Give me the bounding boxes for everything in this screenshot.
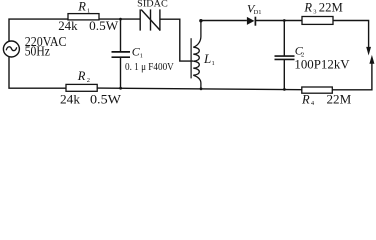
svg-text:1: 1 (87, 8, 90, 15)
output terminal arrow down (top) (366, 47, 371, 56)
svg-text:50Hz: 50Hz (25, 44, 50, 59)
resistor R1 box (68, 14, 99, 20)
wire SIDAC out, down, tap to L1 (160, 19, 193, 61)
wire C2 bottom stem (283, 60, 285, 90)
diode VD1 (247, 17, 256, 26)
wire C2 top stem (283, 21, 285, 56)
svg-text:100P12kV: 100P12kV (294, 56, 350, 71)
wire C1 bottom stem (120, 58, 122, 88)
svg-text:4: 4 (311, 100, 315, 106)
label C2 (295, 44, 304, 59)
svg-text:22M: 22M (319, 0, 343, 15)
wire R3 to top output terminal (333, 21, 369, 52)
AC source G1 circle (3, 41, 19, 57)
svg-text:0.5W: 0.5W (89, 18, 119, 33)
label R4 (301, 93, 315, 108)
junction node dots (119, 18, 286, 91)
label VD1 (247, 1, 262, 16)
resistor R4 box (302, 87, 333, 93)
svg-text:R: R (77, 0, 86, 14)
svg-text:24k: 24k (58, 18, 78, 33)
AC source sine symbol (6, 47, 17, 51)
wire AC source bottom stub and bottom rail to R2 (9, 57, 66, 88)
capacitor C2 plates (275, 56, 295, 59)
wire bottom rail R2 to R4 (97, 88, 302, 90)
wire R1 to SIDAC (99, 18, 140, 20)
svg-text:D1: D1 (254, 9, 262, 16)
svg-text:R: R (303, 1, 312, 15)
inductor L1 core line (190, 38, 192, 78)
svg-text:R: R (77, 69, 86, 83)
inductor L1 winding (193, 21, 201, 89)
wire C1 top stem (120, 19, 122, 51)
wire top-left corner to R1 (9, 19, 68, 41)
label R2 (77, 69, 90, 84)
output terminal arrow up (bottom) (369, 55, 374, 64)
label R1 (77, 0, 90, 15)
capacitor C1 plates (112, 52, 131, 57)
wire L1 top node to diode (201, 20, 247, 22)
resistor R3 box (302, 17, 333, 25)
svg-text:3: 3 (313, 8, 316, 15)
svg-text:R: R (301, 93, 310, 107)
svg-text:0. 1 μ F400V: 0. 1 μ F400V (125, 62, 175, 73)
resistor R2 box (66, 84, 97, 91)
svg-text:2: 2 (87, 77, 90, 84)
SIDAC symbol (140, 9, 160, 30)
svg-text:1: 1 (140, 53, 143, 60)
svg-text:0.5W: 0.5W (90, 91, 122, 106)
wire diode to R3 (256, 20, 302, 22)
label C1 (132, 45, 143, 60)
svg-text:SIDAC: SIDAC (137, 0, 168, 10)
svg-text:24k: 24k (60, 91, 81, 106)
label R3 (303, 1, 316, 16)
label L1 (203, 51, 215, 67)
svg-text:1: 1 (212, 60, 215, 67)
wire R4 to bottom output terminal (332, 60, 372, 90)
svg-text:22M: 22M (327, 92, 352, 107)
svg-text:L: L (203, 51, 211, 66)
